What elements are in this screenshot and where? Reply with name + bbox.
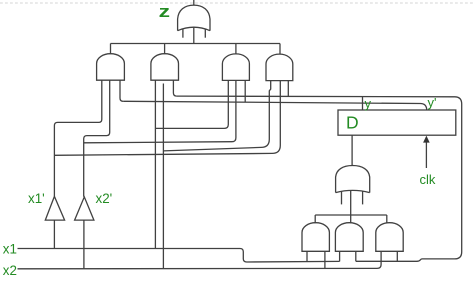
wire OR2 center input through bus2 to B2: [350, 191, 352, 224]
or-gate OR2 (D input gate) body: [336, 166, 370, 193]
wire OR2 input stub left: [341, 191, 343, 204]
inverter T2 (x2') triangle: [75, 197, 94, 220]
wire y line with right-side feedback to bottom AND gates: [177, 96, 462, 261]
wire bus1 drop to G3: [235, 44, 237, 55]
wire G3 input 2 from x2' column: [84, 80, 236, 142]
wire bus2 horizontal (B outputs to OR2): [315, 214, 387, 216]
and-gate G3 body: [222, 54, 249, 81]
wire T2 input from x2 line: [83, 220, 85, 269]
wire OR1 input stub right: [204, 29, 206, 38]
and-gate B3 body: [376, 223, 403, 252]
wire bus2 drop to B3: [386, 215, 388, 223]
svg-text:clk: clk: [420, 172, 436, 187]
wire G1 input B from x2' (jog): [84, 80, 110, 197]
svg-text:x1: x1: [3, 242, 17, 257]
and-gate G4 body: [266, 54, 293, 80]
wire bus1 drop to G1: [110, 44, 112, 55]
flip-flop U1 D box: [338, 110, 456, 135]
page top dashed border: [0, 2, 474, 4]
clk arrowhead: [423, 136, 430, 143]
wire G4 input 2 to x1' column: [54, 81, 280, 156]
wire OR2 output to D flip-flop: [351, 135, 353, 166]
wire z output: [193, 0, 195, 6]
wire G3 input 3 to y' line: [244, 80, 246, 102]
wire T1 input from x1 line: [53, 220, 55, 248]
wire G2 input 2 from x2 line: [162, 84, 164, 269]
wire G2 input 3 bend into y line: [173, 80, 176, 96]
wire B3 input right to y feedback: [396, 251, 398, 261]
wire B1 input right to x2 line: [324, 251, 326, 268]
or-gate OR1 (z output gate) body: [178, 5, 210, 31]
wire bus1 drop to G2: [164, 44, 166, 55]
and-gate B2 body: [335, 223, 363, 252]
wire x1 line with step down to bottom AND gates: [18, 249, 340, 263]
wire OR2 input stub right: [362, 191, 364, 204]
wire OR1 input stub left: [182, 29, 184, 38]
and-gate G2 body: [151, 54, 179, 81]
inverter T1 (x1') triangle: [45, 196, 64, 220]
wire clk arrow line: [425, 141, 427, 168]
svg-text:x1': x1': [28, 191, 45, 206]
svg-text:y: y: [365, 96, 372, 111]
svg-text:x2': x2': [96, 191, 113, 206]
wire G2 input 1 from x1 line: [154, 80, 156, 248]
wire G4 input 3 to y line: [287, 81, 289, 97]
wire G1 input A from x1': [54, 80, 101, 196]
wire bus2 drop to B1: [314, 215, 316, 223]
wire y output vertical: [362, 97, 364, 110]
and-gate G1 body: [97, 54, 125, 80]
wire bus1 drop to G4: [279, 44, 281, 55]
svg-text:x2: x2: [3, 263, 17, 278]
wire B2 input left to x1 ext: [339, 251, 341, 261]
wire OR1 center input to bus1: [193, 27, 195, 43]
svg-text:D: D: [346, 113, 359, 133]
wire B2 input right to y feedback: [355, 251, 357, 261]
svg-text:y': y': [428, 95, 437, 110]
wire G3 input 1 from x1 column: [155, 80, 228, 128]
wire G1 input C bend into y' line: [120, 80, 123, 101]
wire bus1 horizontal (AND outputs to OR1): [111, 43, 281, 45]
wire x2 line curving up into B3 left input: [18, 251, 382, 269]
svg-text:z: z: [159, 3, 170, 21]
wire G4 input 1 (jogged) to x2 column: [163, 81, 270, 151]
wire y' line (from G1 to flip-flop y'): [123, 101, 427, 110]
wire B1 input left to x1 ext: [306, 251, 308, 262]
and-gate B1 body: [302, 223, 329, 252]
